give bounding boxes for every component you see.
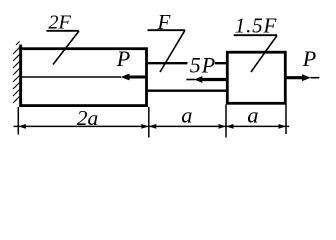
bar segment 3 (area 1.5F) (227, 52, 285, 103)
force P arrow in segment 1 (points left) (21, 74, 146, 81)
svg-text:5P: 5P (190, 53, 216, 78)
fixed wall hatching (13, 42, 20, 104)
svg-text:2a: 2a (77, 106, 99, 130)
bar segment 1 (area 2F) (21, 49, 147, 106)
force P arrow right (points right) (286, 74, 319, 81)
svg-text:a: a (181, 103, 192, 128)
bar segment 2 (area F) top wire, broken for 5P label (147, 62, 188, 64)
dimension arrowheads (18, 124, 286, 129)
bar segment 2 bottom wire (147, 89, 229, 91)
svg-text:a: a (247, 102, 258, 127)
svg-text:P: P (302, 46, 316, 71)
force 5P arrow (points left) (186, 76, 226, 83)
wall line (19, 45, 22, 108)
dimension line (14, 125, 290, 127)
svg-text:1.5F: 1.5F (235, 14, 277, 38)
svg-text:P: P (116, 46, 130, 71)
dimension extension lines (18, 105, 286, 138)
